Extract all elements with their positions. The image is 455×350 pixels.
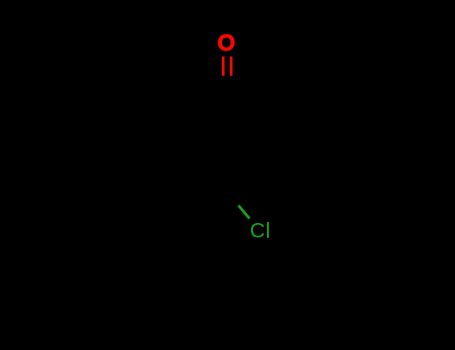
double bond C=O (red half, left line) <box>222 57 225 76</box>
bond C4-phenyl (black, invisible) <box>190 193 228 240</box>
ring bond C6-C1 <box>170 88 227 121</box>
bond C-Cl (green half) <box>239 206 250 219</box>
atom Cl : letter l (drawn as bar matching target height) <box>267 222 269 238</box>
svg-text:O: O <box>217 30 235 56</box>
svg-text:C: C <box>250 220 265 243</box>
bond C4-Cl black half (invisible) <box>228 193 239 206</box>
ring bond C2-C3 <box>283 121 286 159</box>
double bond C=O (red half, right line) <box>230 57 233 76</box>
ring bond C1-C2 (black, invisible on black bg) <box>227 88 284 121</box>
ring bond C4-C5 <box>170 159 228 193</box>
ring bond C5-C6 <box>169 121 172 159</box>
ring bond C3-C4 <box>228 159 284 193</box>
